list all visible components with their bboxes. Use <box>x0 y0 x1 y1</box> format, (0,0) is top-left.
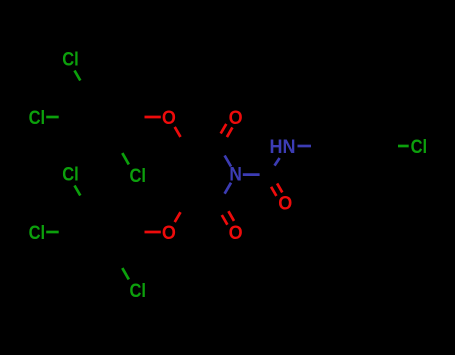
svg-text:O: O <box>278 194 292 215</box>
svg-text:Cl: Cl <box>129 166 146 187</box>
bond C4b-Cl (ring B left Cl) <box>46 231 59 234</box>
bond N1-C2 (imide N to top carbonyl C) <box>225 156 231 167</box>
bond N1-C6 (imide N to bottom carbonyl C) <box>225 183 231 194</box>
svg-text:O: O <box>162 108 176 129</box>
bond C2b-Cl (ring B ortho Cl) <box>122 268 129 279</box>
svg-text:Cl: Cl <box>29 223 46 244</box>
bond N1-C7 (imide N to amide C) <box>243 173 260 176</box>
svg-text:HN: HN <box>270 137 296 158</box>
bond C4a-Cl (ring A left Cl) <box>46 116 59 119</box>
svg-text:O: O <box>229 223 243 244</box>
svg-text:O: O <box>162 223 176 244</box>
svg-text:O: O <box>229 108 243 129</box>
bond N8-C1p (amide NH to ring C) <box>298 145 312 148</box>
svg-text:N: N <box>229 165 242 186</box>
double bond C2=O2 left line <box>221 124 227 134</box>
double bond C7=O7 right line <box>277 183 282 192</box>
svg-text:Cl: Cl <box>29 108 46 129</box>
bond Oa-aryl (top ether to ring A) <box>145 116 161 119</box>
svg-text:Cl: Cl <box>62 165 79 186</box>
bond C2a-Cl (ring A ortho Cl) <box>122 153 129 164</box>
bond C5b-Cl (ring B top Cl) <box>75 186 81 196</box>
double bond C6=O6 right line <box>228 211 234 221</box>
bond N8-C7 (amide NH to carbonyl C) <box>275 158 280 166</box>
svg-text:Cl: Cl <box>411 137 428 158</box>
bond Ob-C5 (bottom ether to imide ring) <box>175 212 181 222</box>
double bond C6=O6 left line <box>222 215 228 225</box>
bond C4p-Cl (ring C para Cl) <box>398 145 409 148</box>
bond C5a-Cl (ring A top Cl) <box>75 71 81 81</box>
double bond C2=O2 right line <box>227 127 233 137</box>
bond Ob-aryl (bottom ether to ring B) <box>145 231 161 234</box>
svg-text:Cl: Cl <box>62 50 79 71</box>
bond Oa-C3 (top ether to imide ring) <box>175 127 181 137</box>
svg-text:Cl: Cl <box>129 281 146 302</box>
double bond C7=O7 left line <box>271 187 276 196</box>
